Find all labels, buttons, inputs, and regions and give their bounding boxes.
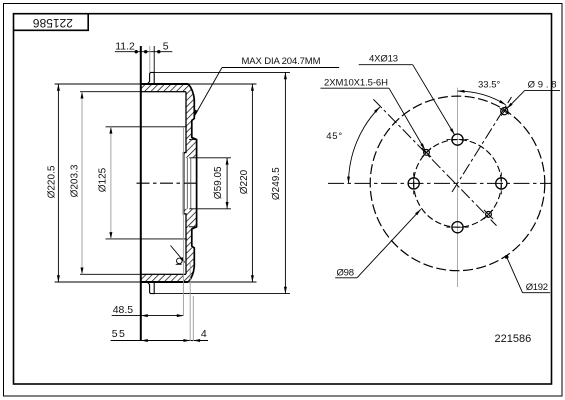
- horizontal centerline: [328, 182, 551, 184]
- svg-text:Ø125: Ø125: [98, 167, 109, 192]
- dimension Ø249.5: [284, 72, 286, 293]
- svg-text:4: 4: [201, 328, 207, 340]
- hub tube lines across bore: [186, 158, 188, 209]
- Ø249.5 extension top: [154, 71, 290, 73]
- hatched section: flange + upper wall: [141, 84, 197, 158]
- flange top face line / Ø220.5-Ø220 extension: [55, 83, 257, 85]
- centerline (horizontal dash-dot): [137, 182, 200, 184]
- braking surface bottom / Ø203.3 extension: [80, 273, 186, 275]
- svg-text:55: 55: [112, 328, 127, 340]
- svg-text:Ø59.05: Ø59.05: [213, 166, 224, 199]
- svg-text:221586: 221586: [495, 333, 532, 345]
- title block cell: [14, 14, 89, 31]
- threaded hole M10 SE: [486, 212, 492, 218]
- MAX DIA leader: [195, 68, 222, 115]
- hub bore edge top / Ø59.05 extension: [189, 157, 231, 159]
- hole Ø9.8: [501, 108, 508, 115]
- dimension Ø125: [110, 127, 112, 239]
- svg-text:11.2: 11.2: [115, 41, 135, 53]
- svg-text:Ø192: Ø192: [526, 282, 548, 293]
- svg-text:Ø203.3: Ø203.3: [70, 164, 81, 197]
- dimension Ø220.5: [57, 84, 59, 282]
- svg-text:Ø220: Ø220: [239, 169, 250, 194]
- svg-text:5: 5: [163, 41, 169, 53]
- svg-text:2XM10X1.5-6H: 2XM10X1.5-6H: [324, 78, 388, 89]
- svg-text:48.5: 48.5: [113, 304, 134, 316]
- drum left face (mounting face): [140, 46, 142, 341]
- svg-text:Ø9.8: Ø9.8: [528, 80, 557, 91]
- diagonal centerline through Ø9.8 hole: [452, 97, 512, 192]
- dimension Ø220: [251, 84, 253, 282]
- bolt hole E: [496, 178, 507, 189]
- hatched section: flange + lower wall: [141, 209, 197, 282]
- drum outer wall contour: [188, 84, 196, 282]
- svg-text:Ø98: Ø98: [337, 268, 355, 279]
- vertical centerline (light): [457, 88, 459, 287]
- svg-text:33.5°: 33.5°: [478, 80, 500, 91]
- drum inner wall / hub boss contour: [183, 92, 186, 275]
- diagonal centerline through M10 holes: [373, 99, 496, 225]
- flange bottom face line / extension: [55, 281, 257, 283]
- top dimension 11.2 and 5: [115, 51, 172, 53]
- bolt circle Ø98 (dashed): [414, 140, 502, 228]
- Ø249.5 extension bottom: [154, 293, 290, 295]
- bolt hole N: [452, 134, 463, 145]
- 45 degree arc: [349, 107, 380, 183]
- dimension Ø203.3: [81, 92, 83, 275]
- svg-text:Ø220.5: Ø220.5: [47, 165, 58, 198]
- bottom pilot lip: [148, 282, 155, 294]
- wall step edge top: [189, 139, 197, 141]
- wall step edge bottom: [189, 226, 197, 228]
- svg-text:45°: 45°: [326, 131, 342, 142]
- inner corner leader with symbol: [171, 246, 185, 262]
- top pilot lip: [148, 72, 155, 84]
- Ø125 extension lines: [106, 126, 187, 128]
- threaded hole M10 NW: [424, 150, 430, 156]
- bolt hole W: [408, 178, 419, 189]
- svg-text:MAX DIA 204.7MM: MAX DIA 204.7MM: [242, 56, 321, 67]
- svg-text:221586: 221586: [33, 16, 73, 30]
- hub bore edge bottom / Ø59.05 extension: [189, 208, 231, 210]
- dimension Ø59.05: [226, 158, 228, 209]
- bolt hole S: [452, 222, 463, 233]
- 33.5 degree arc: [458, 91, 506, 105]
- svg-text:Ø249.5: Ø249.5: [271, 167, 282, 200]
- outer circle Ø192 (dashed): [370, 96, 545, 271]
- hub boss face (thick): [183, 153, 185, 214]
- braking surface top / Ø203.3 extension: [80, 91, 186, 93]
- svg-text:4XØ13: 4XØ13: [369, 54, 398, 65]
